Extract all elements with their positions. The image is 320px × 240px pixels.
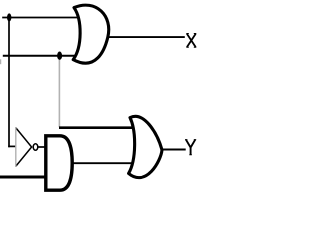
- OR gate U1: [73, 5, 109, 63]
- wire: gray vertical from node B down: [58, 56, 60, 127]
- wire: input A horizontal to OR1 top input: [2, 17, 78, 19]
- wire: vertical from node A down to inverter: [8, 18, 10, 148]
- wire: AND output to OR2 bottom input: [71, 162, 136, 164]
- label stub B (clipped, gray): [0, 59, 2, 64]
- wire: jog into inverter input: [8, 145, 16, 147]
- inverter U3 triangle: [16, 128, 32, 167]
- AND gate U2: [46, 136, 72, 190]
- wire: input B horizontal to OR1 bottom input: [3, 55, 77, 57]
- inverter U3 bubble: [33, 144, 38, 150]
- wire: input C thick horizontal to AND bottom input: [0, 176, 46, 179]
- wire: OR1 output to X: [106, 36, 185, 38]
- wire: thick horizontal to OR2 top input: [59, 126, 135, 129]
- node B junction dot: [57, 52, 62, 60]
- wire: bubble to AND gate: [38, 146, 45, 148]
- OR gate U4: [129, 116, 162, 177]
- label X: [186, 34, 196, 48]
- inverter U3 left edge (gray): [15, 127, 17, 167]
- node A junction dot: [7, 13, 11, 21]
- label Y: [185, 140, 196, 155]
- wire: OR2 output to Y: [159, 149, 186, 151]
